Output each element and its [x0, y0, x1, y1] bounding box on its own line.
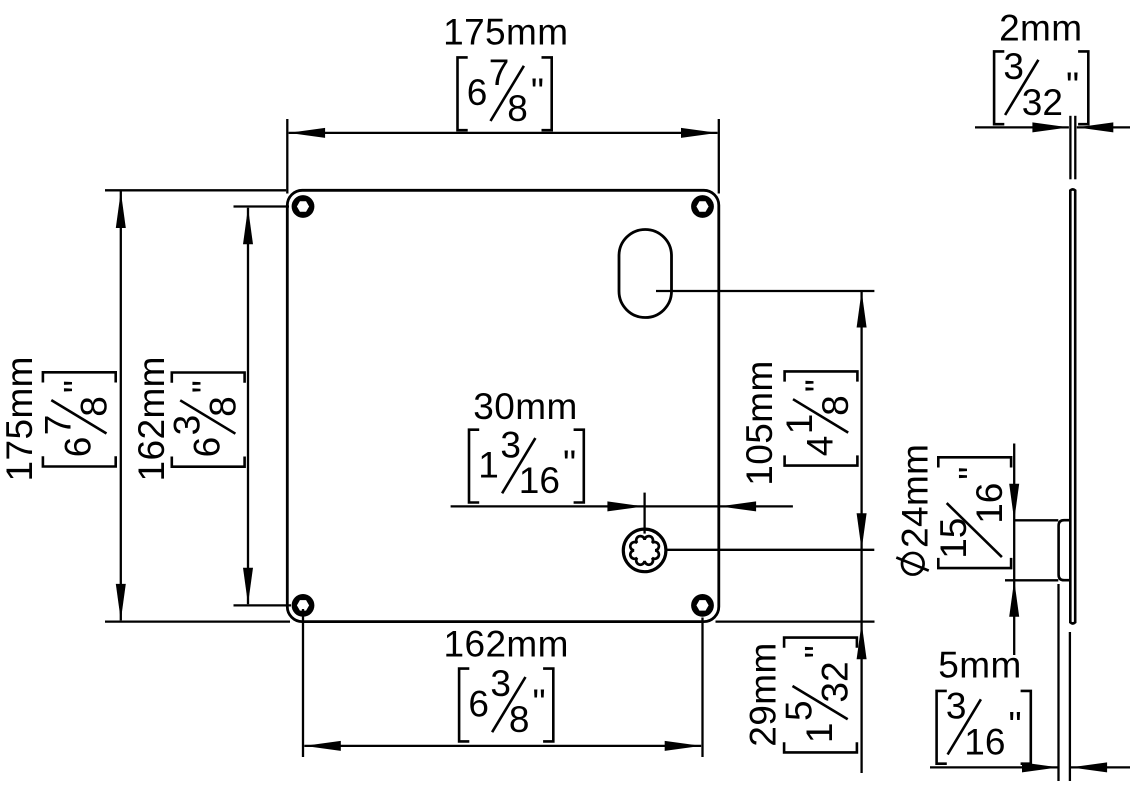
arrow right (5mm)	[1071, 762, 1108, 772]
svg-text:": "	[1009, 704, 1022, 745]
label [3/32&quot;]	[994, 46, 1088, 124]
svg-text:": "	[56, 380, 97, 393]
svg-text:3: 3	[1003, 46, 1024, 87]
svg-text:2mm: 2mm	[999, 8, 1082, 49]
svg-text:6: 6	[468, 683, 489, 724]
obround slot	[619, 230, 672, 318]
corner hole bottom-left	[292, 594, 315, 617]
svg-text:8: 8	[202, 396, 243, 417]
ext line left (2mm)	[1069, 116, 1071, 180]
arrow top (105mm)	[857, 291, 867, 328]
leader from torx (29mm/105mm)	[666, 549, 875, 551]
label dia 24mm	[895, 444, 936, 575]
arrow right (bottom 162mm)	[665, 741, 702, 751]
dim line left 175mm	[120, 192, 122, 621]
svg-text:": "	[952, 467, 993, 480]
arrow right (top 175mm)	[681, 128, 718, 138]
ext line bottom (left 162mm)	[234, 604, 292, 606]
plate outline (front view)	[287, 190, 719, 621]
svg-text:6: 6	[58, 437, 99, 458]
svg-text:6: 6	[467, 72, 488, 113]
svg-text:29mm: 29mm	[743, 642, 784, 746]
dim line bottom 162mm	[304, 745, 701, 747]
side view boss bump	[1059, 520, 1071, 580]
ext line left (5mm)	[1057, 584, 1059, 781]
svg-text:7: 7	[38, 415, 79, 436]
dim line top 175mm	[289, 132, 718, 134]
svg-text:175mm: 175mm	[443, 12, 568, 53]
label [15/16&quot;]	[933, 457, 1011, 568]
svg-text:6: 6	[187, 437, 228, 458]
svg-text:": "	[1066, 65, 1079, 106]
svg-text:162mm: 162mm	[444, 624, 569, 665]
svg-text:3: 3	[490, 663, 511, 704]
svg-text:": "	[798, 379, 839, 392]
svg-text:8: 8	[509, 699, 530, 740]
ext line right (2mm)	[1074, 116, 1076, 180]
arrow bottom (dia24)	[1009, 580, 1019, 617]
svg-text:1: 1	[779, 414, 820, 435]
arrow top (left 162mm)	[243, 208, 253, 245]
label [1 3/16&quot;]	[469, 424, 584, 502]
dim line 105mm/29mm	[860, 291, 862, 773]
leader from slot (105mm)	[656, 290, 874, 292]
ext line top (left 162mm)	[234, 205, 290, 207]
svg-text:30mm: 30mm	[473, 386, 577, 427]
label [6 3/8&quot;] bottom	[459, 663, 553, 741]
dim line left 162mm	[247, 208, 249, 605]
arrow middle (105mm/29mm)	[857, 513, 867, 550]
svg-text:175mm: 175mm	[0, 356, 40, 481]
ext line left (top 175mm)	[286, 119, 288, 194]
arrow right (30mm)	[720, 501, 757, 511]
svg-text:": "	[185, 380, 226, 393]
ext line top (left 175mm)	[105, 189, 286, 191]
arrow left (top 175mm)	[289, 128, 326, 138]
label [6 7/8&quot;] left	[38, 372, 116, 466]
svg-text:5mm: 5mm	[938, 645, 1021, 686]
svg-text:1: 1	[478, 444, 499, 485]
svg-text:8: 8	[507, 88, 528, 129]
svg-text:8: 8	[73, 396, 114, 417]
svg-text:1: 1	[799, 723, 840, 744]
ext line right (top 175mm)	[718, 119, 720, 194]
arrow left (bottom 162mm)	[304, 741, 341, 751]
dim line 2mm right tail	[1077, 126, 1130, 128]
ext line through torx (30mm)	[643, 493, 645, 534]
arrow left (5mm)	[1022, 762, 1059, 772]
arrow top (left 175mm)	[116, 192, 126, 229]
svg-text:16: 16	[969, 483, 1010, 524]
svg-text:16: 16	[964, 721, 1005, 762]
svg-text:3: 3	[946, 686, 967, 727]
arrow top (dia24)	[1009, 484, 1019, 521]
svg-text:": "	[533, 682, 546, 723]
svg-text:": "	[798, 645, 839, 658]
label [3/16&quot;]	[937, 686, 1031, 764]
arrow left (30mm)	[607, 501, 644, 511]
svg-text:32: 32	[815, 661, 856, 702]
corner hole bottom-right	[691, 594, 714, 617]
dim line 2mm left tail	[975, 126, 1069, 128]
svg-text:8: 8	[815, 395, 856, 416]
ext line plate bottom (29mm)	[716, 620, 875, 622]
label [1 5/32&quot;]	[779, 638, 857, 753]
dim line 5mm left tail	[930, 766, 1059, 768]
ext line left (bottom 162mm)	[302, 609, 304, 757]
leader boss bottom (dia24)	[1005, 579, 1058, 581]
svg-text:16: 16	[519, 460, 560, 501]
ext line right (bottom 162mm)	[701, 618, 703, 758]
svg-text:105mm: 105mm	[739, 360, 780, 485]
side view plate profile	[1070, 189, 1075, 623]
label [4 1/8&quot;]	[779, 371, 857, 465]
torx hole	[623, 529, 666, 572]
svg-text:32: 32	[1022, 82, 1063, 123]
arrow bottom (29mm)	[857, 623, 867, 660]
label [6 3/8&quot;] left	[166, 373, 244, 467]
dim line dia24	[1013, 444, 1015, 656]
svg-text:": "	[531, 71, 544, 112]
svg-text:4: 4	[799, 436, 840, 457]
ext line bottom (left 175mm)	[105, 620, 290, 622]
corner hole top-right	[691, 195, 714, 218]
arrow bottom (left 175mm)	[116, 584, 126, 621]
arrow bottom (left 162mm)	[243, 568, 253, 605]
svg-text:24mm: 24mm	[895, 444, 936, 548]
arrow left (2mm)	[1032, 122, 1069, 132]
corner hole top-left	[292, 195, 315, 218]
label [6 7/8&quot;] top	[458, 52, 552, 130]
svg-text:7: 7	[489, 52, 510, 93]
svg-text:3: 3	[166, 415, 207, 436]
svg-text:5: 5	[779, 700, 820, 721]
dim line 5mm right tail	[1071, 766, 1130, 768]
svg-text:3: 3	[500, 424, 521, 465]
svg-text:": "	[563, 443, 576, 484]
dim line 30mm	[451, 505, 793, 507]
arrow right (2mm)	[1077, 122, 1114, 132]
leader boss top (dia24)	[1014, 519, 1058, 521]
ext line right (5mm)	[1069, 632, 1071, 781]
